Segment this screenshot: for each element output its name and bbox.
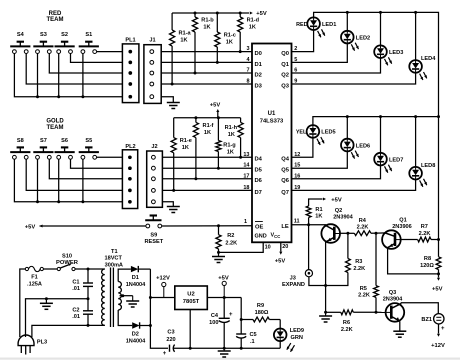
svg-text:Q1: Q1 [281,62,290,68]
svg-text:1K: 1K [180,38,187,44]
svg-text:R1: R1 [315,207,322,213]
svg-text:1K: 1K [226,40,233,46]
svg-text:Q3: Q3 [389,290,396,296]
svg-text:LED5: LED5 [321,130,335,136]
wire center tap [120,295,133,297]
svg-text:R1-a: R1-a [178,31,191,37]
wire Q2 emitter [325,242,327,286]
ground R2 [212,256,225,258]
svg-text:R1-d: R1-d [247,18,260,24]
svg-text:2.2K: 2.2K [358,293,370,299]
wire J2 row3 to U1 D6 [162,178,252,180]
wire U1 Vcc pin 20 +5V [280,242,282,251]
diode D2 1N4004 [132,322,139,328]
ground J1 [167,102,180,104]
svg-text:1K: 1K [227,149,234,155]
svg-text:R2: R2 [227,233,234,239]
fuse F1 .125A [25,267,28,270]
svg-text:LED1: LED1 [322,22,336,28]
svg-text:S8: S8 [17,138,24,144]
wire LED3 top lead [380,12,382,45]
svg-text:2N3904: 2N3904 [333,215,353,221]
svg-text:2.2K: 2.2K [225,240,237,246]
wire LE to J3 [308,225,310,270]
wire S3 to PL1 row3 [49,54,122,74]
svg-text:7805T: 7805T [183,299,200,305]
wire +5V bus top [172,12,249,14]
resistor R9 180ohm [241,319,253,321]
ground J2 [167,206,180,208]
svg-text:D4: D4 [255,157,263,163]
svg-text:13: 13 [243,152,249,158]
svg-text:2.2K: 2.2K [353,266,365,272]
svg-text:Q4: Q4 [281,157,290,163]
svg-text:D0: D0 [255,51,262,57]
svg-text:S9: S9 [150,232,157,238]
wire Q0 to LED1 [292,30,314,52]
svg-text:18: 18 [243,185,249,191]
plug PL3 [18,335,34,346]
svg-text:D3: D3 [255,83,263,89]
wire secondary bottom to D2 [118,310,132,326]
svg-text:R7: R7 [421,224,428,230]
wire J1 row2 to U1 D1 [161,61,252,63]
wire secondary top to D1 [118,269,131,281]
svg-text:C1: C1 [72,280,79,286]
svg-text:LED7: LED7 [389,157,403,163]
svg-text:PL1: PL1 [125,38,135,44]
wire Q1 emitter to +5V [388,248,439,274]
LED8 [409,167,422,180]
svg-text:R4: R4 [359,218,367,224]
wire ground rail [173,347,224,349]
resistor R6 2.2K [326,311,341,313]
wire S4 to PL1 row4 [26,54,122,85]
svg-text:PL3: PL3 [37,340,47,346]
wire U1 GND pin 10 [219,242,264,252]
svg-text:R8: R8 [424,256,431,262]
svg-text:VCC: VCC [271,233,281,240]
capacitor C1 .01 [87,269,89,283]
LED1 (RED) [307,17,320,30]
capacitor C4 100 [223,298,225,319]
regulator U2 7805T [175,286,208,310]
svg-text:TEAM: TEAM [47,125,64,131]
svg-text:LED4: LED4 [421,56,436,62]
svg-text:+5V: +5V [331,198,342,204]
wire Q1 base to R7 [401,239,418,241]
svg-text:R1-b: R1-b [201,18,214,24]
svg-text:1K: 1K [315,213,322,219]
svg-text:+12V: +12V [156,275,170,281]
svg-text:.125A: .125A [27,281,42,287]
ground Q3 [393,330,406,332]
svg-text:Q7: Q7 [281,190,289,196]
svg-text:+: + [163,351,167,357]
wire S9 to OE [162,225,252,227]
wire Q5 to LED6 [292,151,348,168]
wire S7 to PL2 row3 [49,159,122,179]
svg-text:2N3906: 2N3906 [392,224,412,230]
svg-text:R3: R3 [355,259,362,265]
svg-text:Q2: Q2 [281,72,289,78]
svg-text:.01: .01 [72,286,80,292]
wire J2 ground lead [162,202,173,207]
wire Q3 emitter [399,321,401,331]
wire +12V rail [150,297,174,299]
svg-text:D2: D2 [132,332,139,338]
svg-text:+5V: +5V [275,259,286,265]
resistor R1 1K [308,218,310,225]
svg-text:1K: 1K [228,132,235,138]
wire Q3 collector to buzzer [401,303,438,314]
svg-text:+: + [441,326,445,332]
svg-text:GRN: GRN [291,335,303,341]
svg-text:EXPAND: EXPAND [282,282,305,288]
svg-text:R6: R6 [343,320,350,326]
svg-text:Q3: Q3 [281,83,290,89]
svg-text:7: 7 [246,68,249,74]
wire Q6 to LED7 [292,165,381,178]
svg-text:220: 220 [166,337,175,343]
LED2 [341,31,354,44]
svg-text:180Ω: 180Ω [255,310,269,316]
svg-text:R5: R5 [360,286,367,292]
svg-text:S5: S5 [85,138,92,144]
wire R9 to LED9 [279,320,281,329]
wire S6 to PL2 row2 [71,159,123,168]
wire S1 left drop [82,54,84,97]
svg-text:OE: OE [255,224,264,230]
wire rectifier column [149,269,151,325]
capacitor C3 220 [169,345,171,352]
LED9 GRN [274,329,287,342]
wire F1 to S10 [43,268,57,270]
svg-text:8: 8 [246,79,249,85]
wire Q7 to LED8 [292,180,416,191]
wire J1 row3 to U1 D2 [161,72,252,74]
wire +5V arrow bank2 [217,112,219,118]
svg-text:Q2: Q2 [335,208,342,214]
svg-text:100: 100 [209,320,218,326]
svg-text:D1: D1 [132,275,139,281]
wire S8 to PL2 row4 [26,159,122,190]
svg-text:J1: J1 [149,38,155,44]
wire LED9 to ground rail [279,341,281,348]
svg-text:S7: S7 [40,138,47,144]
wire J1 row4 to U1 D3 [161,83,252,85]
svg-text:1K: 1K [203,25,210,31]
wire +5V branch down [240,298,242,320]
ground Q2 emitter [325,312,327,316]
connector J3 EXPAND [305,270,312,277]
resistor R1-a 1K [171,13,173,30]
wire S2 to PL1 row2 [71,54,123,63]
svg-text:U1: U1 [268,111,276,117]
svg-text:1N4004: 1N4004 [126,282,146,288]
wire LE line [292,224,327,226]
wire S6 left drop [58,159,60,202]
LED6 [341,139,354,152]
svg-text:R1-c: R1-c [224,33,236,39]
wire J2 row2 to U1 D5 [162,167,252,169]
wire J3 shield to ground [309,277,326,286]
svg-text:LE: LE [281,224,289,230]
svg-text:.1: .1 [250,339,255,345]
svg-text:TEAM: TEAM [47,17,64,23]
svg-text:18VCT: 18VCT [104,256,122,262]
svg-text:RED: RED [296,22,307,28]
svg-text:3: 3 [246,46,249,52]
wire S5 left drop [82,159,84,202]
svg-text:1K: 1K [249,25,256,31]
svg-text:+12V: +12V [431,343,445,349]
svg-text:Q0: Q0 [281,51,289,57]
svg-text:LED6: LED6 [356,143,370,149]
capacitor C5 .1 [240,320,242,335]
svg-text:C2: C2 [72,307,79,313]
svg-text:C3: C3 [167,330,174,336]
resistor R2 2.2K [217,224,220,227]
svg-text:S10: S10 [62,254,72,260]
svg-text:11: 11 [294,219,300,225]
svg-text:Q1: Q1 [399,218,406,224]
LED5 (YEL) [307,125,320,138]
wire Q2 base to R4 [340,232,348,234]
svg-text:F1: F1 [31,274,38,280]
wire LED2 top lead [346,12,348,30]
svg-text:2.2K: 2.2K [357,225,369,231]
svg-text:D1: D1 [255,62,263,68]
svg-text:D7: D7 [255,190,262,196]
svg-text:GOLD: GOLD [46,119,64,125]
svg-text:GND: GND [255,233,267,239]
svg-text:+5V: +5V [218,275,229,281]
label +5V under R8 [438,274,440,278]
resistor R1-f 1K [195,118,197,123]
svg-text:+: + [229,312,233,318]
svg-text:R1-f: R1-f [203,123,214,129]
wire LED8 top lead [415,117,417,167]
svg-text:LED9: LED9 [290,328,304,334]
svg-text:LED2: LED2 [356,35,370,41]
wire LED4 top lead [415,12,417,60]
svg-text:+5V: +5V [25,225,36,231]
resistor R1-b 1K [194,13,196,17]
LED7 [374,153,387,166]
svg-text:+5V: +5V [210,103,221,109]
wire U2 output [207,297,224,299]
wire BZ1 to +12V [438,324,440,334]
svg-text:10: 10 [265,245,271,251]
resistor R1-h 1K [240,118,242,123]
svg-text:D6: D6 [255,178,263,184]
switch S10 POWER [57,267,60,270]
svg-text:17: 17 [243,173,249,179]
svg-text:Q6: Q6 [281,178,290,184]
svg-text:20: 20 [282,244,288,250]
transformer secondary [118,282,121,311]
terminal +12V [162,282,166,286]
wire U2 ground pin [189,310,191,349]
wire D2 junction to C3 [150,326,168,349]
LED4 [409,60,422,73]
svg-text:R9: R9 [257,303,264,309]
svg-text:S6: S6 [61,138,68,144]
capacitor C2 .01 [87,299,89,311]
svg-text:C4: C4 [211,313,219,319]
svg-text:R1-e: R1-e [180,138,192,144]
svg-text:2N3904: 2N3904 [383,296,403,302]
svg-text:LED3: LED3 [389,50,403,56]
svg-text:C5: C5 [250,332,257,338]
svg-text:.01: .01 [72,314,80,320]
wire S7 left drop [37,159,39,202]
LED3 [374,45,387,58]
svg-text:R1-g: R1-g [223,142,236,148]
wire right column [438,117,440,257]
resistor R1-e 1K [173,118,175,138]
svg-text:D5: D5 [255,168,263,174]
wire J1 ground lead [161,97,173,103]
svg-text:R1-h: R1-h [225,125,238,131]
svg-text:300mA: 300mA [105,262,123,268]
wire Q2 to LED3 [292,58,381,73]
resistor R1-g 1K [217,116,220,119]
wire J2 row4 to U1 D7 [162,189,252,191]
resistor R1-c 1K [216,13,218,32]
wire PL3 hot to F1 [20,269,26,337]
svg-text:J3: J3 [290,275,296,281]
svg-text:1: 1 [244,219,247,225]
svg-text:U2: U2 [187,292,194,298]
resistor R5 2.2K [375,233,377,285]
resistor R8 120ohm [436,257,441,270]
wire LED bus bank1 [314,12,439,116]
svg-text:J2: J2 [151,144,157,150]
ground rail symbol [223,348,225,351]
transformer core [110,268,112,328]
svg-text:POWER: POWER [56,260,79,266]
wire red common bus [14,54,122,97]
wire line filter center [26,299,89,337]
svg-text:S1: S1 [85,32,92,38]
svg-text:RESET: RESET [144,239,163,245]
svg-text:2.2K: 2.2K [419,231,431,237]
svg-text:120Ω: 120Ω [420,263,434,269]
svg-text:1K: 1K [204,130,211,136]
svg-text:T1: T1 [111,249,118,255]
wire S5 to PL2 row1 [97,156,123,158]
svg-text:+5V: +5V [432,286,443,292]
wire S2 left drop [58,54,60,97]
resistor R4 2.2K [348,232,354,234]
wire PL3 neutral to T1 [32,325,105,337]
ground line filter [45,299,47,304]
svg-text:YEL: YEL [296,130,307,136]
svg-text:BZ1: BZ1 [421,317,432,323]
wire S10 to T1 primary [75,268,105,270]
wire S3 left drop [37,54,39,97]
wire Q4 to LED5 [292,138,313,158]
switch S9 RESET [145,219,161,221]
wire gold common bus [14,159,122,202]
resistor R1-d 1K [239,13,241,17]
svg-text:1K: 1K [182,145,189,151]
svg-text:2.2K: 2.2K [341,327,353,333]
wire LED bus bank2 [313,117,439,126]
latch U1 74LS373 [252,44,292,243]
svg-text:S2: S2 [61,32,68,38]
svg-text:S3: S3 [40,32,47,38]
svg-text:Q5: Q5 [281,168,290,174]
wire Q3 base [376,311,386,313]
svg-text:RED: RED [49,11,62,17]
resistor R7 2.2K [418,237,431,242]
svg-text:LED8: LED8 [421,163,435,169]
svg-text:+5V: +5V [256,11,267,17]
wire Q1 to LED2 [292,43,348,62]
resistor R3 2.2K [347,233,349,258]
wire LED6 top lead [346,117,348,139]
wire J1 row1 to U1 D0 [161,51,252,53]
diode D1 1N4004 [131,266,138,272]
ground center tap [132,296,134,301]
svg-text:14: 14 [243,163,250,169]
terminal +5V output [222,281,226,285]
svg-text:D2: D2 [255,72,262,78]
wire Q3 to LED4 [292,73,416,84]
wire reset line [40,224,43,227]
svg-text:S4: S4 [17,32,25,38]
wire LED7 top lead [380,117,382,153]
wire +5V bus bank2 [174,117,241,119]
buzzer BZ1 [434,314,444,324]
svg-text:1N4004: 1N4004 [126,339,146,345]
wire S1 to PL1 row1 [97,51,123,53]
wire J2 row1 to U1 D4 [162,156,252,158]
svg-text:74LS373: 74LS373 [260,119,284,125]
